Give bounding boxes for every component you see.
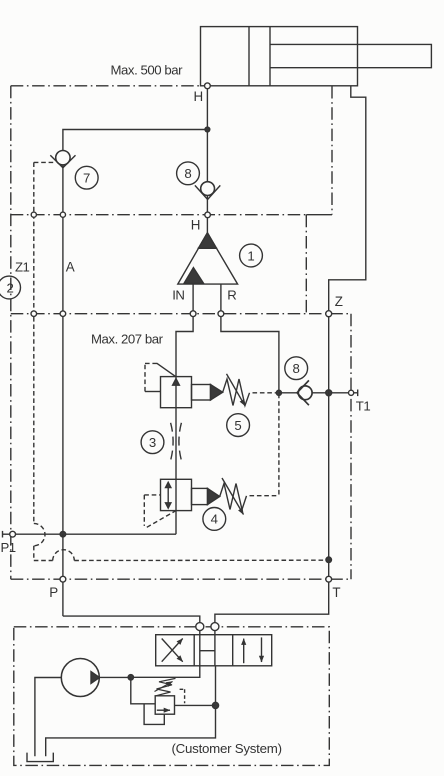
label Z1 — [15, 259, 30, 274]
check valve 8 upper — [195, 182, 220, 200]
relief valve spring — [155, 678, 176, 695]
valve 5 pilot left — [145, 363, 175, 391]
wire pump suction — [35, 678, 61, 757]
wire valve 5 to junction dashed — [253, 392, 277, 394]
svg-text:A: A — [66, 259, 75, 274]
wire boundary connector — [305, 215, 307, 314]
label Max. 207 bar — [91, 332, 164, 347]
valve 4 solenoid and spring — [192, 478, 247, 515]
svg-text:7: 7 — [83, 171, 90, 186]
svg-text:1: 1 — [247, 248, 254, 263]
relief valve drain loop — [144, 704, 164, 725]
intensifier U1 stem — [206, 218, 208, 233]
node R — [218, 311, 224, 317]
label IN — [172, 288, 184, 303]
directional valve crossed arrows — [162, 639, 183, 662]
customer system frame — [14, 627, 330, 766]
pilot line Z1 drain with hop arcs — [34, 317, 327, 561]
valve 4 body — [161, 479, 192, 510]
node T1 — [349, 390, 358, 397]
valve 5 solenoid and spring — [192, 374, 250, 406]
wire P to customer port — [63, 616, 200, 622]
intensifier U1 body — [178, 233, 238, 284]
node A — [60, 311, 66, 317]
wire P1 port — [3, 531, 10, 538]
directional valve body — [156, 635, 272, 666]
label circle 8 upper — [177, 162, 200, 185]
svg-text:P1: P1 — [1, 540, 16, 555]
customer port T — [211, 623, 219, 635]
label H middle — [191, 218, 201, 233]
tank — [27, 753, 53, 762]
cylinder barrel — [201, 27, 358, 86]
node Z1 — [31, 311, 37, 317]
wire relief outlet — [175, 704, 216, 706]
valve 5 body — [161, 377, 192, 408]
wire H branch horizontal — [63, 130, 208, 152]
label circle 3 — [141, 431, 164, 454]
wire P1 to valve 4 — [16, 511, 177, 535]
svg-text:2: 2 — [7, 280, 14, 295]
cylinder piston — [249, 27, 270, 86]
relief valve body — [155, 696, 174, 714]
label H top — [194, 89, 204, 104]
svg-text:Max. 207 bar: Max. 207 bar — [91, 332, 164, 347]
wire H line vertical — [206, 86, 208, 212]
check valve 7 — [50, 151, 75, 213]
label circle 4 — [203, 508, 226, 531]
wire middle frame bottom boundary — [11, 578, 351, 580]
wire A line — [62, 217, 64, 534]
wire right boundary upper frame — [331, 86, 333, 215]
junction H branch — [205, 127, 210, 132]
wire middle frame right boundary — [350, 314, 352, 580]
node on boundary x63 — [60, 212, 65, 217]
label T — [332, 585, 340, 600]
junction A P — [60, 531, 66, 537]
svg-text:3: 3 — [149, 435, 156, 450]
directional valve parallel arrows — [244, 637, 262, 663]
wire left boundary — [10, 86, 12, 579]
wire P line down — [62, 534, 64, 616]
node on boundary x34 — [31, 212, 36, 217]
svg-text:8: 8 — [293, 361, 300, 376]
node IN — [190, 311, 196, 317]
svg-text:4: 4 — [211, 512, 218, 527]
svg-text:5: 5 — [234, 418, 241, 433]
wire check valve to T1 — [312, 392, 349, 394]
junction T drain — [326, 557, 332, 563]
svg-text:T1: T1 — [356, 398, 371, 413]
label circle 8 lower — [285, 357, 308, 380]
label Max. 500 bar — [111, 63, 184, 78]
pump — [61, 659, 131, 697]
wire junction to check valve — [279, 392, 298, 394]
svg-text:H: H — [191, 218, 201, 233]
svg-text:Max. 500 bar: Max. 500 bar — [111, 63, 184, 78]
label circle 1 — [240, 244, 263, 267]
check valve 8 lower — [297, 380, 312, 405]
wire valve 4 pilot to junction dashed — [250, 396, 279, 496]
label R — [227, 288, 237, 303]
svg-text:R: R — [227, 288, 237, 303]
wire T to customer port — [215, 582, 329, 622]
node H middle — [205, 212, 211, 218]
junction relief outlet — [212, 702, 218, 708]
intensifier legs IN R — [193, 284, 221, 311]
label circle 5 — [227, 414, 250, 437]
wire lower boundary upper frame — [11, 214, 307, 216]
wire R to junction — [221, 317, 279, 393]
cylinder rod — [270, 44, 431, 67]
junction pump outlet — [128, 675, 133, 680]
svg-text:Z1: Z1 — [15, 259, 30, 274]
label P — [49, 585, 58, 600]
label circle 7 — [75, 166, 98, 189]
label A — [66, 259, 75, 274]
node H top — [205, 83, 211, 89]
svg-text:P: P — [49, 585, 58, 600]
wire Z from cylinder — [329, 86, 366, 311]
node T — [326, 576, 332, 582]
node P — [60, 576, 66, 582]
label Z — [335, 294, 343, 309]
wire IN to valve 5 — [176, 317, 193, 377]
svg-text:(Customer System): (Customer System) — [172, 741, 282, 756]
valve 4 pilot left — [144, 495, 175, 527]
node P1 — [10, 531, 16, 537]
svg-text:H: H — [194, 89, 204, 104]
svg-text:8: 8 — [184, 166, 191, 181]
pilot line to check valve 7 — [34, 162, 55, 313]
node Z — [326, 311, 332, 317]
junction R pilot — [276, 390, 281, 395]
wire tank return — [46, 666, 216, 757]
wire dash-dot top boundary — [11, 85, 201, 87]
svg-text:IN: IN — [172, 288, 184, 303]
svg-text:T: T — [332, 585, 340, 600]
restrictor 3 — [171, 408, 182, 480]
wire Z to T line — [328, 317, 330, 577]
directional valve center position — [200, 635, 215, 666]
label T1 — [356, 398, 371, 413]
customer port P — [196, 623, 204, 635]
label Customer System — [172, 741, 282, 756]
junction T line — [326, 390, 332, 396]
label circle 2 — [0, 276, 21, 299]
wire middle frame top boundary — [11, 313, 351, 315]
wire relief inlet — [131, 677, 155, 704]
wire valve to pump — [131, 666, 200, 678]
relief valve pilot dashed — [180, 689, 185, 703]
svg-text:Z: Z — [335, 294, 343, 309]
label P1 — [1, 540, 16, 555]
